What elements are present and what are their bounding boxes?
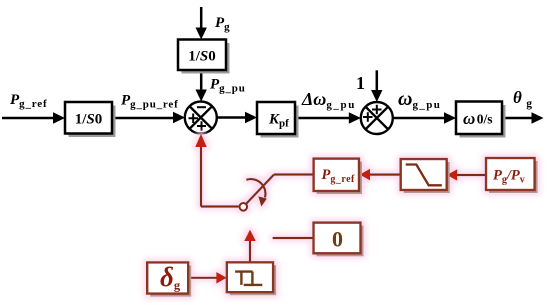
block Kpf — [257, 102, 295, 134]
block delta_g (red) — [147, 262, 188, 293]
arrowhead into B2 top — [196, 28, 207, 40]
arrowhead output right — [532, 112, 544, 123]
wire Pg input top — [200, 7, 203, 29]
block Pg/Pv (red) shadow — [489, 161, 538, 193]
arrowhead into sum1 bottom (red) — [195, 134, 207, 147]
arrowhead into sum1 left — [173, 112, 185, 123]
arrowhead into sum1 top — [196, 90, 207, 102]
block B2 1/S0 — [178, 40, 226, 71]
block B1 1/S0 — [65, 102, 112, 134]
step waveform symbol — [235, 272, 262, 285]
arrowhead of step-up wire (red) — [244, 230, 256, 242]
arrowhead into sum2 left — [349, 112, 361, 123]
wire step block up — [249, 240, 251, 262]
wire B2 to sum1 — [200, 70, 203, 91]
summing junction sum1 — [185, 102, 217, 134]
block delta_g (red) shadow — [150, 265, 191, 296]
block Pg_ref (red) shadow — [317, 162, 362, 194]
arrowhead into Kpf — [245, 112, 257, 123]
block w0/s — [456, 102, 502, 135]
sign plus top — [372, 105, 382, 115]
wire arm to Pg_ref block — [274, 173, 314, 175]
wire Kpf to sum2 — [295, 117, 349, 120]
svg-text:1: 1 — [356, 73, 365, 93]
block B2 1/S0 shadow — [182, 43, 230, 74]
switch arm — [246, 175, 274, 204]
switch arc arrowhead — [258, 196, 267, 206]
wire constant 1 into sum2 — [376, 70, 379, 91]
summing junction sum2 — [361, 102, 393, 134]
wire PgPv to sat arrowbase — [457, 174, 487, 176]
wire Pg_ref input — [2, 117, 53, 120]
wire sum1 to Kpf — [217, 116, 246, 119]
wire sum2 to w0/s — [393, 117, 445, 120]
block Pg/Pv (red) — [486, 158, 535, 190]
wire 0 block to left — [273, 237, 314, 239]
wire feedback horizontal to switch — [201, 205, 239, 207]
arrowhead into step block (red) — [216, 272, 227, 284]
block saturation (red) — [401, 159, 447, 190]
block Kpf shadow — [261, 106, 299, 138]
arrowhead into sum2 top — [371, 90, 382, 102]
svg-text:1/S0: 1/S0 — [75, 112, 103, 128]
block B1 1/S0 shadow — [69, 106, 116, 138]
svg-text:ω0/s: ω0/s — [463, 109, 493, 128]
block 0 (red) shadow — [317, 226, 364, 257]
block saturation (red) shadow — [404, 162, 450, 193]
block step (red) — [227, 262, 273, 292]
wire B1 to sum1 — [112, 117, 174, 120]
block step (red) shadow — [230, 265, 276, 295]
saturation curve symbol — [406, 165, 442, 186]
arrowhead into Pg_ref block (red) — [360, 169, 371, 181]
block 0 (red) — [314, 223, 361, 254]
svg-text:0: 0 — [332, 227, 343, 252]
arrowhead into sat block (red) — [447, 169, 458, 181]
arrowhead into B1 — [53, 112, 65, 123]
switch contact circle — [240, 203, 248, 211]
arrowhead into w0/s — [444, 112, 456, 123]
sign plus left — [189, 114, 199, 124]
sign plus left — [363, 112, 373, 122]
wire feedback vertical up to sum1 — [200, 146, 202, 207]
block w0/s shadow — [460, 105, 506, 138]
block Pg_ref (red) — [314, 159, 359, 191]
wire sat to Pg_ref arrowbase — [369, 174, 401, 176]
sign plus bottom — [197, 121, 206, 131]
sign minus top — [197, 106, 206, 108]
wire delta to step arrowbase — [188, 277, 216, 279]
switch arc — [246, 179, 265, 198]
svg-text:1/S0: 1/S0 — [188, 49, 216, 65]
wire w0/s output — [502, 117, 532, 120]
